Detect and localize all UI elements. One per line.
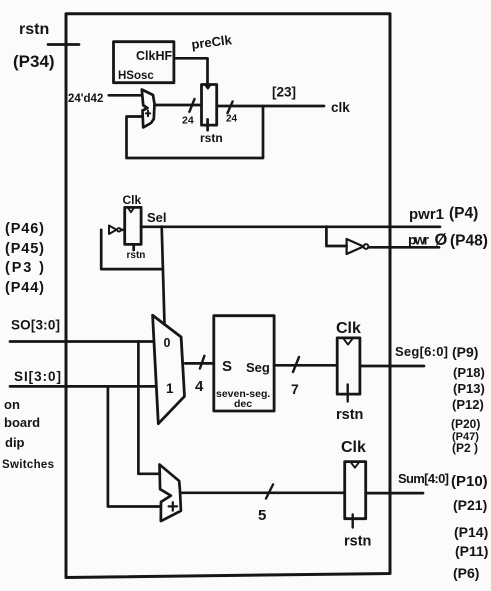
svg-text:(P13): (P13) (453, 381, 485, 396)
plus sign adder A1 (146, 111, 150, 116)
svg-text:(P2 ): (P2 ) (452, 441, 478, 455)
bus slash 24 R1 input (189, 99, 194, 112)
svg-text:(P11): (P11) (455, 543, 488, 559)
svg-text:(P44): (P44) (5, 280, 44, 296)
seven-seg decoder U4 (214, 316, 274, 411)
wire decoder U4 to register R3 (274, 364, 337, 367)
clock notch R2 (128, 209, 133, 213)
svg-text:7: 7 (291, 381, 299, 397)
svg-text:Ø: Ø (435, 231, 448, 249)
svg-text:(P10): (P10) (451, 473, 488, 490)
svg-text:pwr: pwr (408, 232, 430, 248)
svg-text:(P4): (P4) (449, 205, 478, 222)
svg-text:Clk: Clk (341, 439, 366, 456)
bus slash 4 (200, 356, 205, 369)
svg-text:Sum[4:0]: Sum[4:0] (398, 471, 449, 486)
svg-text:(P34): (P34) (13, 52, 55, 71)
svg-text:rstn: rstn (127, 250, 146, 261)
svg-text:(P14): (P14) (454, 524, 488, 540)
rstn stub R3 (347, 385, 349, 402)
svg-text:Seg[6:0]: Seg[6:0] (395, 344, 448, 359)
svg-text:rstn: rstn (336, 407, 363, 423)
svg-text:ClkHF: ClkHF (136, 49, 172, 63)
svg-text:(P21): (P21) (453, 497, 487, 513)
svg-text:board: board (4, 415, 40, 430)
svg-text:(P46): (P46) (5, 221, 44, 237)
wire rstn input stub (48, 43, 79, 46)
svg-text:(P18): (P18) (453, 365, 485, 380)
wire SI[3:0] input (10, 385, 156, 388)
svg-text:4: 4 (195, 378, 204, 395)
oscillator U1 ClkHF HSosc (114, 42, 174, 83)
svg-text:0: 0 (164, 336, 171, 350)
svg-text:24: 24 (182, 115, 194, 127)
svg-text:(P48): (P48) (450, 233, 488, 250)
wire inverter U2 to R2 D input (121, 228, 125, 231)
svg-text:Clk: Clk (123, 193, 142, 207)
register R2 sel toggle (125, 207, 141, 244)
wire sel feedback loop (101, 230, 162, 269)
wire Sel down to mux select (162, 227, 165, 325)
bus slash 24 R1 output (228, 102, 233, 114)
inverter U3 pwr0 (347, 239, 364, 254)
svg-text:24'd42: 24'd42 (68, 93, 103, 105)
wire SO[3:0] input (10, 340, 153, 343)
svg-text:(P6): (P6) (453, 565, 479, 581)
svg-text:Sel: Sel (147, 210, 167, 225)
svg-text:SO[3:0]: SO[3:0] (11, 318, 60, 333)
svg-text:(P12): (P12) (452, 397, 484, 412)
wire counter feedback loop (127, 106, 264, 158)
clock notch R3 (344, 339, 353, 345)
wire Sum output (366, 492, 423, 495)
rstn stub R4 (352, 515, 354, 528)
svg-text:(P3 ): (P3 ) (5, 260, 44, 276)
wire mux M1 output (185, 362, 214, 365)
clock notch R1 (205, 85, 210, 89)
rstn stub R1 (206, 119, 209, 130)
wire SO tap to adder A2 top (138, 342, 160, 474)
wire branch to inverter U3 (326, 227, 346, 247)
wire 24'd42 to adder A1 (109, 94, 142, 97)
svg-text:HSosc: HSosc (118, 70, 154, 82)
outer module box (66, 14, 390, 578)
inverter U2 sel feedback (109, 226, 117, 235)
svg-text:Clk: Clk (336, 320, 361, 337)
svg-text:24: 24 (226, 114, 238, 125)
rstn stub R2 (132, 244, 135, 250)
svg-text:(P45): (P45) (5, 241, 44, 257)
mux M1 (153, 315, 185, 423)
svg-text:dip: dip (5, 435, 25, 450)
bus slash 5 (266, 485, 273, 499)
clock notch R4 (351, 463, 358, 468)
svg-text:preClk: preClk (191, 32, 234, 52)
svg-text:dec: dec (234, 398, 252, 410)
svg-text:[23]: [23] (272, 85, 296, 100)
register R4 sum (345, 462, 366, 519)
wire SI tap to adder A2 bottom (108, 386, 161, 506)
wire Sel net to pwr1 output (141, 225, 440, 228)
register R3 seg (337, 338, 360, 394)
plus sign adder A2 (169, 502, 177, 510)
adder A1 counter increment (142, 90, 155, 128)
bus slash 7 (293, 357, 299, 372)
wire adder A1 output to register R1 (155, 104, 202, 107)
svg-text:rstn: rstn (344, 534, 371, 550)
wire Seg output (360, 365, 424, 368)
svg-text:S: S (222, 358, 232, 375)
svg-text:SI[3:0]: SI[3:0] (14, 369, 61, 384)
svg-text:rstn: rstn (200, 131, 223, 145)
svg-text:Seg: Seg (246, 360, 270, 375)
svg-text:5: 5 (258, 507, 266, 524)
svg-text:on: on (4, 397, 20, 412)
adder A2 sum (160, 465, 181, 522)
wire preClk (174, 58, 208, 87)
svg-text:Switches: Switches (2, 459, 54, 471)
register R1 clock divider (202, 85, 217, 126)
svg-text:pwr1: pwr1 (409, 206, 444, 223)
svg-text:1: 1 (166, 381, 174, 396)
svg-text:(P9): (P9) (452, 344, 478, 360)
wire R1 output clk net (217, 105, 324, 108)
wire U3 output pwr0 (369, 246, 440, 249)
wire A2 output to register R4 (180, 491, 345, 494)
svg-text:rstn: rstn (19, 21, 49, 38)
svg-text:clk: clk (331, 100, 350, 115)
svg-text:(P20): (P20) (451, 417, 480, 431)
